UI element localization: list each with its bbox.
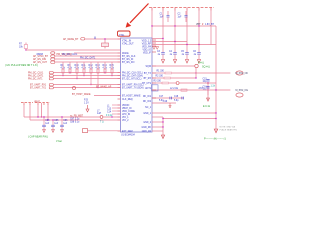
svg-text:PM_I2C_INT1: PM_I2C_INT1 — [28, 79, 43, 81]
svg-text:V bat: V bat — [56, 140, 62, 143]
net label BT_HOST_WAKE row — [72, 93, 121, 96]
decoupling capacitor C4 — [169, 46, 177, 63]
svg-text:XTAL: XTAL — [119, 34, 125, 37]
svg-text:VBAT: VBAT — [34, 100, 40, 103]
svg-text:E 0.1k: E 0.1k — [203, 105, 211, 108]
svg-text:ANT1: ANT1 — [145, 87, 152, 90]
svg-text:XTAL_OUT: XTAL_OUT — [122, 43, 134, 46]
annotation (green) — [198, 62, 204, 65]
IC U1 designator — [121, 134, 136, 136]
capacitor C2 (top) — [178, 11, 188, 22]
wire GND long row — [152, 112, 217, 113]
annotation (teal) — [0, 0, 1, 1]
capacitor C1 (top) — [160, 11, 170, 22]
IC right pin stubs — [152, 40, 156, 83]
decoupling capacitor C6 — [193, 46, 201, 63]
wire row y98 — [152, 96, 183, 102]
svg-text:AP_SYNC_BT: AP_SYNC_BT — [33, 55, 49, 58]
svg-text:BT_I2C_INT (SCL): BT_I2C_INT (SCL) — [122, 79, 142, 81]
resistor R1 row — [152, 68, 197, 78]
svg-text:C88 0.1u: C88 0.1u — [70, 122, 80, 124]
power rails right of IC — [152, 39, 216, 45]
svg-text:ANT: ANT — [199, 87, 204, 90]
svg-text:1uF: 1uF — [63, 123, 68, 125]
decoupling capacitor C3 — [157, 46, 165, 63]
svg-text:VDD_IO: VDD_IO — [142, 50, 151, 52]
svg-text:BT_UART_TX1: BT_UART_TX1 — [30, 87, 47, 90]
svg-text:SQW: SQW — [146, 66, 152, 68]
wire SQW row — [152, 64, 198, 67]
annotation (green) bottom right — [204, 137, 226, 140]
svg-text:T (): T () — [100, 122, 104, 124]
svg-text:AP_I2S_DIN: AP_I2S_DIN — [33, 58, 46, 61]
svg-text:( I2C PULLUP RES NR T 1.8 ): ( I2C PULLUP RES NR T 1.8 ) — [5, 64, 38, 67]
wire to connector P1 — [196, 72, 230, 74]
svg-text:M_PO2_OK: M_PO2_OK — [236, 73, 249, 75]
mid cluster: regulator labels — [84, 100, 89, 113]
wires from bottom-left rail — [24, 104, 48, 120]
ground (IC gnd) — [161, 135, 164, 139]
annotation (green) under cap bank — [28, 136, 62, 144]
svg-text:BT_I2S_DI: BT_I2S_DI — [122, 59, 134, 61]
IC internal pin names (right column) — [142, 41, 152, 134]
net label above VDD wire — [70, 115, 84, 117]
svg-text:PM_I2C_CLK1: PM_I2C_CLK1 — [62, 54, 78, 56]
ground arrows near IC right pins — [153, 47, 159, 50]
svg-text:BT_I2S_DO: BT_I2S_DO — [122, 62, 135, 64]
svg-text:RF_IO2: RF_IO2 — [143, 101, 152, 103]
svg-text:1uF: 1uF — [160, 17, 165, 19]
capacitor C9 (bank) — [60, 116, 68, 132]
svg-text:L2 2.4G: L2 2.4G — [170, 88, 178, 90]
svg-text:1.2V: 1.2V — [84, 102, 89, 104]
svg-text:BT_I2S_CLK: BT_I2S_CLK — [122, 56, 136, 58]
svg-text:PM_I2C_CLK1: PM_I2C_CLK1 — [28, 73, 44, 75]
svg-text:NC_1: NC_1 — [145, 107, 152, 109]
svg-text:GND_RF: GND_RF — [142, 127, 152, 129]
svg-text:PM_I2C_CLK (SCL): PM_I2C_CLK (SCL) — [122, 73, 143, 75]
connector P2 — [236, 90, 249, 97]
wire row y92 — [152, 87, 208, 91]
svg-text:PM_I2C_DAT1: PM_I2C_DAT1 — [28, 75, 44, 78]
svg-text:GND_1: GND_1 — [143, 113, 151, 115]
svg-text:LPO_IN: LPO_IN — [122, 114, 131, 116]
shield box annotation — [152, 85, 159, 91]
wire VBAT horizontal to net label — [152, 25, 216, 27]
svg-text:VDDIO: VDDIO — [122, 105, 129, 107]
svg-text:BT_RX: BT_RX — [144, 78, 152, 80]
svg-text:PLACE NEAR PIN: PLACE NEAR PIN — [220, 128, 238, 131]
svg-text:GND_2: GND_2 — [143, 122, 151, 124]
annotation (teal) mid — [100, 122, 104, 124]
net label VBAT_BT — [196, 24, 215, 26]
svg-text:R1 330: R1 330 — [157, 71, 165, 73]
node junctions top — [151, 25, 199, 26]
net label texts above bus — [62, 54, 96, 59]
wire GND row 2 — [163, 118, 217, 119]
annotation (green) I2C pullup — [5, 64, 38, 67]
net label BT_UART rows (cluster C) — [30, 84, 121, 87]
capacitor C16 — [203, 87, 210, 102]
power rail (top, dashed) — [149, 8, 214, 11]
svg-text:VDD_RF: VDD_RF — [142, 44, 152, 46]
svg-text:C18: C18 — [174, 96, 179, 98]
svg-text:AP_WAKE_BT: AP_WAKE_BT — [63, 38, 79, 41]
svg-text:BT_UART_TX (SDA): BT_UART_TX (SDA) — [122, 87, 144, 90]
svg-text:VIO_2: VIO_2 — [122, 120, 129, 122]
wire to connector P2 — [208, 89, 230, 90]
net label AP_SYNC_BT rows (cluster A) — [33, 55, 121, 58]
capacitor C7 (bank) — [42, 116, 50, 132]
mid components before IC pins — [107, 105, 121, 114]
svg-text:C85: C85 — [54, 120, 59, 122]
svg-text:BT_UART_RX (SCL): BT_UART_RX (SCL) — [122, 84, 144, 87]
svg-text:VDD_IF: VDD_IF — [143, 53, 152, 55]
net label VBAT + feed — [34, 100, 42, 117]
net label PM_I2C_CLK rows (cluster B) — [28, 72, 121, 75]
wire PM_SW_POW row — [37, 52, 121, 56]
power rail (bottom-left, dashed) — [21, 103, 50, 106]
IC U1 — [121, 38, 153, 132]
annotation (green) mid right — [203, 105, 211, 108]
wire vertical drops from top rail — [152, 8, 211, 46]
svg-text:nc_FB_WBT: nc_FB_WBT — [70, 115, 84, 117]
wire VDDIO bus horizontals — [24, 117, 121, 120]
IC internal pin names (left column) — [122, 40, 144, 134]
ferrite bead FB1 — [83, 129, 121, 133]
resistor R7 cluster (left) — [19, 43, 121, 51]
svg-text:M_PO2_NG: M_PO2_NG — [236, 90, 249, 92]
svg-text:1.8V_BT: 1.8V_BT — [205, 24, 215, 26]
annotation SQ (green) — [202, 66, 210, 69]
svg-text:PM_I2C_DAT (SDA): PM_I2C_DAT (SDA) — [122, 75, 143, 78]
capacitor bank labels — [70, 118, 80, 123]
connector P1 — [236, 71, 249, 75]
svg-text:WAKE: WAKE — [122, 52, 129, 55]
svg-text:1uF: 1uF — [54, 123, 59, 125]
svg-text:VDD_1.2: VDD_1.2 — [142, 41, 152, 43]
svg-text:BT_UART_RX1: BT_UART_RX1 — [30, 84, 47, 87]
svg-text:PM_I2C_DAT1: PM_I2C_DAT1 — [80, 56, 96, 59]
svg-text:1uF: 1uF — [45, 123, 50, 125]
resistor R6 (pull-down on wake) — [102, 38, 109, 48]
svg-text:R3 330: R3 330 — [154, 81, 162, 83]
svg-text:BT_CTS: BT_CTS — [142, 83, 151, 85]
capacitor C8 (bank) — [51, 119, 59, 132]
svg-text:1uF: 1uF — [178, 17, 183, 19]
svg-text:C19: C19 — [163, 101, 168, 103]
svg-text:1uH: 1uH — [97, 113, 102, 115]
wire GND stubs to vertical — [152, 117, 163, 135]
svg-text:C14: C14 — [107, 112, 112, 114]
resistor R2 row — [152, 76, 197, 79]
wire vertical bus right — [215, 26, 217, 129]
svg-text:GND_PA: GND_PA — [142, 130, 152, 133]
svg-text:VBAT_IN: VBAT_IN — [122, 107, 132, 110]
svg-text:BT_HOST_WAKE: BT_HOST_WAKE — [122, 95, 141, 98]
svg-text:BT_WAKE_AP: BT_WAKE_AP — [96, 86, 112, 89]
highlight box around pin label — [118, 31, 131, 37]
svg-text:C87 2.2u: C87 2.2u — [70, 118, 80, 120]
IC left pin stubs — [118, 39, 121, 131]
decoupling capacitor C5 — [181, 46, 189, 63]
net label AP_WAKE_BT row — [63, 37, 121, 42]
wire row y103 — [152, 101, 176, 108]
svg-text:R2 330: R2 330 — [156, 76, 164, 78]
ground (right bus) — [214, 129, 218, 133]
resistor R3 row with test point — [152, 81, 216, 85]
inductor L7 on VDD wire — [97, 110, 113, 118]
svg-text:F 0.1k: F 0.1k — [106, 115, 113, 117]
svg-text:EXT_FEM: EXT_FEM — [122, 131, 133, 133]
svg-text:U1 BCM4334: U1 BCM4334 — [121, 134, 136, 136]
svg-text:E # (): E # () — [198, 62, 204, 65]
node junctions on rails — [162, 38, 199, 45]
svg-text:C86: C86 — [63, 120, 68, 122]
svg-text:CLK_REQ: CLK_REQ — [122, 99, 133, 101]
svg-text:C17: C17 — [159, 96, 164, 98]
svg-text:( CAP NEAR PIN ): ( CAP NEAR PIN ) — [28, 136, 48, 139]
svg-text:VDD_PA: VDD_PA — [142, 46, 151, 49]
svg-text:C84: C84 — [45, 120, 50, 122]
test point TP1 + wire row — [72, 86, 111, 90]
svg-text:P--------- (#) ------- (-): P--------- (#) ------- (-) — [204, 137, 226, 140]
svg-text:5.6p: 5.6p — [174, 100, 179, 102]
svg-text:C13: C13 — [107, 109, 112, 111]
svg-text:XTAL_IN: XTAL_IN — [122, 40, 131, 43]
capacitor C15 — [203, 79, 216, 88]
svg-text:BT_TX: BT_TX — [144, 73, 152, 75]
wire divider column — [207, 83, 209, 95]
svg-text:VDD_CORE: VDD_CORE — [122, 111, 135, 113]
svg-text:BT_HOST_WAKE: BT_HOST_WAKE — [72, 93, 91, 96]
svg-text:NOTE: GND VIA: NOTE: GND VIA — [220, 126, 236, 129]
pull-up resistors row R8..R15 — [61, 62, 66, 76]
annotation arrow — [126, 4, 149, 28]
svg-text:RF_IO1: RF_IO1 — [143, 96, 152, 98]
svg-text:VIO_1: VIO_1 — [122, 117, 129, 119]
svg-text:SQ # (): SQ # () — [202, 66, 210, 69]
note (grey) — [220, 126, 238, 132]
